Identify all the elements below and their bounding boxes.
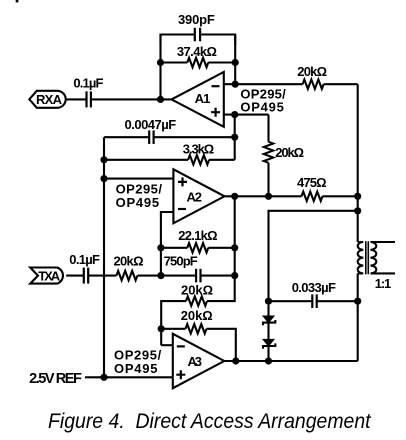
node: right feedback junction [232, 59, 239, 66]
svg-text:OP495: OP495 [114, 361, 158, 376]
node: 2.5V rail bottom junction [100, 374, 107, 381]
resistor 20k (A3 input) [186, 296, 207, 305]
svg-text:OP495: OP495 [240, 99, 283, 114]
minus symbol A1 [212, 85, 220, 87]
plus symbol A1 [211, 108, 220, 117]
wire: A2 out rail corner into A3 first 20k [161, 276, 235, 346]
stray ink fragment top-left [16, 0, 19, 2]
node: 22.1k left junction [157, 244, 164, 251]
node: RXA/feedback junction [157, 96, 164, 103]
zener diode D1 [263, 316, 275, 325]
resistor 20k (vertical) [264, 142, 273, 163]
svg-text:0.1µF: 0.1µF [73, 75, 103, 90]
node: 475 right junction [354, 193, 361, 200]
svg-text:390pF: 390pF [178, 12, 215, 27]
node: 750p right junction [231, 272, 238, 279]
resistor 37.4k [187, 58, 208, 67]
node: 750p left junction [157, 272, 164, 279]
node: 0.033 left junction [265, 298, 272, 305]
node: A1 minus junction [232, 81, 239, 88]
svg-text:A2: A2 [187, 189, 203, 204]
capacitor 0.1uF (RXA) [87, 91, 91, 107]
resistor 20k (A3 feedback) [186, 324, 207, 333]
node: right rail link junction [354, 207, 361, 214]
svg-text:1:1: 1:1 [375, 276, 391, 291]
node: 0.033 right junction [354, 298, 361, 305]
node: A2 output junction [231, 193, 238, 200]
wire: 0.0047uF line [104, 136, 235, 138]
wire: 37.4k feedback line [161, 35, 236, 100]
wire: A3 output along bottom [224, 360, 357, 362]
svg-text:TXA: TXA [38, 269, 61, 284]
svg-text:20kΩ: 20kΩ [275, 145, 304, 160]
node: A1 plus junction [231, 111, 238, 118]
node: 0.0047 right junction [231, 134, 238, 141]
node: diode bottom junction [265, 357, 272, 364]
svg-text:20kΩ: 20kΩ [181, 283, 213, 298]
wire: A1 plus bias rail down to RC [234, 115, 236, 160]
terminal tag TXA [30, 268, 63, 284]
wire: A1 plus input line to vertical 20k [224, 114, 269, 116]
terminal tag RXA [29, 91, 65, 108]
node: left feedback junction [157, 59, 164, 66]
wire: A2 feedback rail to 750p line [234, 248, 236, 276]
zener diode D2 [263, 339, 275, 348]
wire: A1 minus input and 20k to line side [224, 83, 358, 85]
wire: right rail (line side) [357, 84, 359, 361]
svg-text:2.5V REF: 2.5V REF [29, 371, 82, 387]
capacitor 750pF [196, 269, 200, 283]
op-amp A3 [173, 334, 225, 388]
op-amp A2 [173, 169, 224, 223]
plus symbol A2 [178, 177, 187, 186]
resistor 22.1k [187, 243, 208, 252]
svg-text:22.1kΩ: 22.1kΩ [178, 228, 217, 243]
wire: RXA line with 0.1uF cap to A1 output [66, 98, 172, 100]
wire: TXA line with 0.1uF, 20k, 750pF [66, 275, 235, 277]
capacitor 0.033uF [312, 294, 316, 308]
wire: 22.1k line [161, 247, 235, 249]
svg-text:A1: A1 [195, 91, 211, 106]
node: 3.3k left junction [100, 156, 107, 163]
wire: line-side link from right rail to clamp branch [269, 211, 358, 361]
wire: A2 feedback rail down [234, 196, 236, 248]
wire: A2 plus input [104, 178, 173, 180]
svg-text:0.033µF: 0.033µF [292, 280, 336, 295]
node: 22.1k right junction [231, 244, 238, 251]
svg-text:3.3kΩ: 3.3kΩ [183, 141, 214, 156]
svg-text:Figure 4. Direct Access Arran: Figure 4. Direct Access Arrangement [48, 410, 372, 433]
wire: 3.3k line [104, 159, 235, 161]
resistor 3.3k [188, 155, 209, 164]
op-amp A1 (output left, inputs right) [172, 72, 224, 127]
wire: 2.5V REF to A3 plus [85, 376, 173, 378]
svg-text:0.0047µF: 0.0047µF [125, 117, 177, 132]
resistor 20k (receive) [303, 80, 324, 89]
svg-text:20kΩ: 20kΩ [114, 253, 144, 268]
svg-text:475Ω: 475Ω [297, 175, 327, 190]
node: A3 minus junction [158, 325, 165, 332]
minus symbol A3 [177, 345, 185, 347]
wire: A2 minus input from feedback node [161, 212, 174, 276]
wire: 2.5V bias rail (left vertical) [103, 137, 105, 377]
transformer T1 primary winding [358, 242, 364, 273]
svg-text:37.4kΩ: 37.4kΩ [177, 44, 217, 59]
svg-text:0.1µF: 0.1µF [69, 252, 100, 267]
minus symbol A2 [178, 208, 186, 210]
svg-text:RXA: RXA [36, 92, 63, 107]
node: vertical 20k bottom junction [265, 193, 272, 200]
transformer T1 secondary winding [371, 242, 396, 273]
svg-text:A3: A3 [188, 354, 203, 369]
resistor 475 [302, 192, 323, 201]
wire: 390pF top loop [161, 35, 236, 46]
capacitor 0.0047uF [149, 130, 153, 144]
wire: A3 minus input stub [161, 344, 173, 346]
capacitor C 390pF [195, 28, 200, 42]
node: A3 output junction [232, 357, 239, 364]
transformer T1 core [366, 241, 369, 274]
svg-text:750pF: 750pF [164, 254, 198, 269]
svg-text:20kΩ: 20kΩ [181, 308, 213, 323]
node: A2 plus junction on rail [100, 175, 107, 182]
resistor 20k (TXA) [116, 271, 137, 280]
svg-text:OP495: OP495 [116, 195, 160, 210]
capacitor 0.1uF (TXA) [84, 268, 88, 284]
plus symbol A3 [176, 370, 185, 379]
wire: 0.033uF line [269, 300, 358, 302]
wire: A2 output to 475 and right rail [225, 195, 358, 197]
svg-text:20kΩ: 20kΩ [297, 64, 327, 79]
wire: A3 feedback 20k [161, 329, 236, 361]
wire: vertical 20k from A1 plus line down to 475 line [267, 115, 269, 197]
